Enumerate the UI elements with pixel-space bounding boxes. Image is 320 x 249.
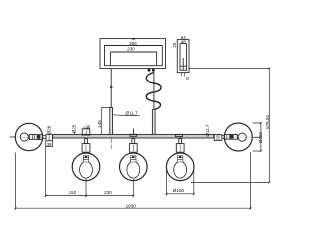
- suspension cable straight line: [153, 70, 155, 110]
- right fitting: [214, 135, 222, 141]
- dim 576.50 bottom extension: [191, 182, 269, 184]
- svg-text:1930: 1930: [126, 203, 137, 208]
- dim Ø150 right line: [260, 123, 262, 151]
- hanging globe 1 fitting centerline: [85, 131, 87, 135]
- cable attachment dot right: [152, 69, 155, 72]
- svg-text:Ø150: Ø150: [258, 131, 263, 143]
- svg-text:152: 152: [69, 190, 77, 195]
- right bulb glass: [238, 133, 246, 141]
- svg-text:25: 25: [172, 42, 177, 48]
- left globe axis dash: [10, 136, 16, 138]
- right bulb base lines: [227, 135, 230, 140]
- canopy inner rectangle (306 outline): [105, 46, 163, 66]
- bar (horizontal tube): [53, 134, 214, 138]
- dim Ø150 right ticks: [260, 122, 262, 152]
- left fitting inner line: [48, 134, 50, 141]
- right globe stem: [222, 136, 225, 139]
- hanging globe 3 bulb glass: [174, 162, 187, 178]
- svg-text:230: 230: [104, 190, 112, 195]
- left bulb base: [29, 135, 42, 140]
- svg-text:576.50: 576.50: [265, 115, 270, 129]
- suspension tube: [152, 110, 155, 135]
- svg-text:230: 230: [127, 47, 135, 52]
- right globe axis centerline: [224, 136, 263, 138]
- rod R1 tube: [110, 108, 113, 135]
- svg-text:145: 145: [97, 120, 102, 128]
- dim 145 extension and line: [101, 108, 111, 136]
- dim 38 extension lines: [46, 141, 53, 147]
- hanging globe 1 glass sphere: [72, 153, 100, 181]
- side view stem centerline: [180, 58, 187, 70]
- svg-text:Ø11.7: Ø11.7: [125, 111, 138, 116]
- hanging globe 3 holder centerline: [179, 145, 181, 152]
- suspension cable spiral: [146, 73, 161, 110]
- canopy top edge marker: [132, 38, 136, 40]
- dim 576.50 top extension: [189, 67, 269, 69]
- hanging globe 1 holder centerline: [85, 145, 87, 152]
- svg-text:8: 8: [185, 77, 190, 80]
- left globe: [15, 123, 42, 150]
- dim 26 ticks: [84, 127, 88, 129]
- canopy top-view outer rectangle: [100, 39, 166, 69]
- right globe: [224, 123, 252, 151]
- svg-text:Ø26: Ø26: [46, 125, 51, 134]
- hanging globe 1 holder: [82, 144, 90, 153]
- svg-text:306: 306: [129, 41, 137, 46]
- left bulb glass: [20, 133, 28, 141]
- hanging globe 3 nipple: [179, 139, 182, 144]
- hanging globe 2 stub: [133, 129, 135, 135]
- hanging globe 3 cap: [175, 135, 182, 137]
- hanging globe 1 bulb base: [83, 156, 88, 163]
- rod joint tick: [110, 86, 112, 88]
- hanging globe 3 glass sphere: [166, 153, 194, 181]
- dim Ø150 bottom ticks: [165, 193, 194, 195]
- svg-text:26: 26: [85, 124, 91, 129]
- dim Ø11.7 leader: [113, 114, 140, 117]
- dim 152/230 ticks: [45, 195, 135, 197]
- left bulb base lines: [32, 135, 34, 140]
- dim 152/230 line: [46, 195, 134, 197]
- left globe stem: [43, 136, 46, 139]
- hanging globe 2 bulb base: [131, 156, 136, 163]
- hanging globe 1 fitting box: [82, 129, 90, 135]
- dim 1930 extension lines: [15, 152, 250, 210]
- side view outer rectangle: [177, 40, 189, 73]
- hanging globe 1 bulb tip: [85, 156, 87, 158]
- dim 152/230 extension lines: [46, 147, 134, 197]
- hanging globe 3 bulb tip: [179, 156, 181, 158]
- hanging globe 2 holder: [129, 144, 137, 153]
- hanging globe 1 nipple: [85, 139, 88, 144]
- hanging globe 2 bulb glass: [127, 162, 140, 178]
- right globe axis dash: [254, 136, 261, 138]
- dim 576.50 line: [268, 68, 270, 182]
- hanging globe 2 bulb tip: [132, 156, 134, 158]
- svg-text:48: 48: [181, 39, 187, 44]
- svg-text:Ø25: Ø25: [72, 124, 77, 133]
- hanging globe 2 holder centerline: [132, 145, 134, 152]
- svg-text:38: 38: [46, 142, 52, 147]
- right bulb base: [224, 135, 237, 140]
- dim Ø150 bottom extension lines: [166, 169, 193, 195]
- right bulb neck: [237, 135, 238, 139]
- dim Ø150 right extensions: [253, 123, 261, 151]
- hanging globe 2 cap: [130, 134, 137, 136]
- side view bottom stem marks (8 dim): [182, 73, 185, 77]
- hanging globe 3 bulb base: [178, 156, 183, 163]
- dim Ø150 bottom line: [166, 193, 193, 195]
- canopy opening rectangle (230): [110, 52, 156, 65]
- dim 576.50 ticks: [268, 67, 270, 183]
- left bulb base dark block: [37, 135, 41, 139]
- right fitting inner line: [217, 135, 219, 141]
- left bulb neck: [28, 135, 30, 139]
- rod R1 upper thin line: [110, 69, 112, 108]
- hanging globe 2 nipple: [132, 139, 135, 144]
- dim 1930 ticks: [14, 207, 251, 209]
- cable attachment dot left: [148, 69, 151, 72]
- dim 1930 line: [15, 207, 250, 209]
- hanging globe 2 glass sphere: [120, 153, 148, 181]
- hanging globe 3 holder: [176, 144, 184, 153]
- left globe axis centerline: [10, 136, 47, 138]
- svg-text:Ø11.7: Ø11.7: [205, 124, 210, 137]
- Ø25 label leader tick: [74, 132, 76, 135]
- svg-text:Ø150: Ø150: [173, 188, 185, 193]
- rod centerline below bar: [110, 138, 112, 149]
- side view inner rectangle: [180, 44, 187, 70]
- hanging globe 1 bulb glass: [80, 162, 93, 178]
- right bulb base dark block: [230, 135, 234, 139]
- left fitting: [46, 134, 52, 141]
